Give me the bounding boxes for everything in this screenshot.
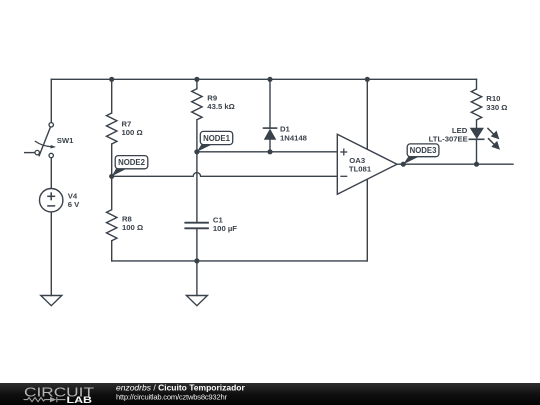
svg-text:100 Ω: 100 Ω	[122, 128, 143, 137]
svg-text:LAB: LAB	[67, 395, 93, 405]
svg-text:NODE2: NODE2	[118, 158, 146, 167]
svg-text:enzodrbs / Cicuito Temporizado: enzodrbs / Cicuito Temporizador	[116, 382, 245, 392]
svg-text:330 Ω: 330 Ω	[486, 103, 507, 112]
svg-text:1N4148: 1N4148	[280, 133, 308, 142]
svg-text:6 V: 6 V	[68, 200, 80, 209]
svg-text:LTL-307EE: LTL-307EE	[429, 135, 468, 144]
svg-text:TL081: TL081	[349, 165, 372, 174]
svg-text:SW1: SW1	[57, 136, 74, 145]
svg-text:http://circuitlab.com/cztwbs8c: http://circuitlab.com/cztwbs8c932hr	[116, 392, 227, 401]
svg-text:NODE1: NODE1	[203, 134, 231, 143]
svg-text:NODE3: NODE3	[410, 146, 438, 155]
svg-text:100 Ω: 100 Ω	[122, 223, 143, 232]
svg-text:43.5 kΩ: 43.5 kΩ	[207, 102, 235, 111]
svg-text:100 µF: 100 µF	[213, 224, 237, 233]
